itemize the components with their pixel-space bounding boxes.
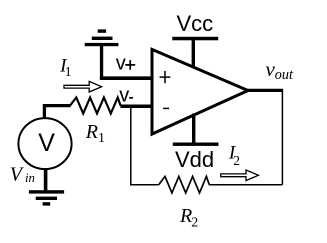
wire: source top stub and lead to R1 (44, 106, 70, 119)
svg-text:v: v (116, 52, 126, 74)
svg-text:Vcc: Vcc (177, 11, 214, 36)
wire: feedback tap down from v- node (130, 106, 132, 185)
op-amp - input sign (163, 107, 169, 109)
wire: bottom left from R2 to feedback tap (130, 184, 159, 186)
ground (non-inverting input, flipped) (85, 29, 119, 79)
svg-text:R: R (85, 121, 98, 143)
svg-text:2: 2 (233, 153, 240, 168)
current arrow I2 (221, 170, 259, 181)
svg-text:1: 1 (65, 64, 72, 79)
wire: v- node to op-amp inverting input (120, 104, 153, 108)
wire: bottom right to R2 (209, 184, 282, 186)
supply Vdd T-bar (173, 114, 219, 146)
supply Vcc T-bar (172, 37, 218, 68)
label R1 (85, 121, 105, 146)
wire: op-amp output (246, 89, 283, 92)
current arrow I1 (64, 81, 102, 92)
node v+ label (116, 52, 136, 74)
svg-text:2: 2 (191, 215, 198, 230)
node v- label (119, 85, 133, 107)
label I2 (228, 143, 240, 168)
svg-text:in: in (25, 171, 35, 185)
op-amp + input sign (160, 71, 171, 83)
op-amp U1 (152, 49, 248, 134)
wire: v+ node to op-amp non-inverting input (100, 76, 153, 80)
svg-text:R: R (179, 205, 192, 227)
wire: right vertical from output down (281, 90, 283, 184)
label R2 (179, 205, 198, 230)
ground (source) (29, 190, 64, 205)
voltage source V (Vin) (18, 118, 71, 169)
svg-text:V: V (38, 129, 55, 157)
svg-text:v: v (119, 85, 129, 107)
svg-text:1: 1 (98, 131, 105, 146)
resistor R1 (70, 98, 121, 114)
resistor R2 (159, 176, 209, 193)
node vout label (266, 57, 294, 83)
svg-text:out: out (275, 67, 294, 83)
wire: source bottom stem (44, 168, 48, 191)
node vin label (10, 164, 35, 186)
label I1 (59, 56, 71, 79)
svg-text:Vdd: Vdd (175, 147, 214, 172)
